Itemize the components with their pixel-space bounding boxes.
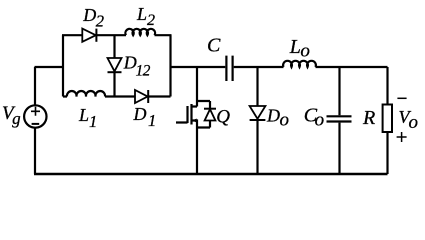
svg-text:Q: Q [216,106,230,127]
svg-text:Lo: Lo [289,36,310,61]
svg-text:C: C [207,35,221,57]
svg-text:R: R [362,107,375,129]
